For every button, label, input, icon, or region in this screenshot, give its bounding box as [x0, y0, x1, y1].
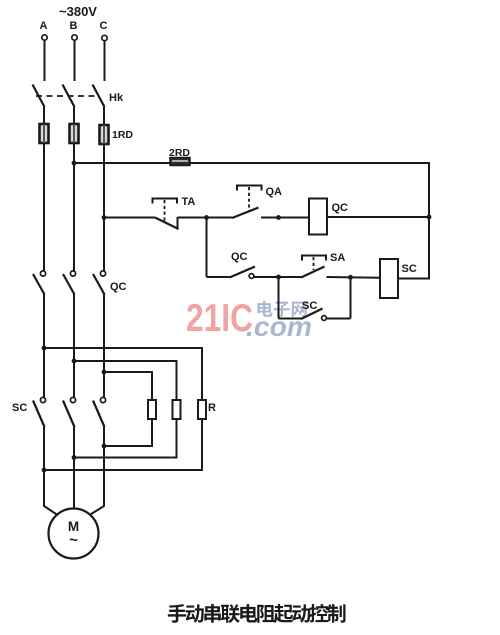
terminal node A — [42, 35, 47, 40]
pushbutton SA — [301, 256, 326, 278]
svg-text:QC: QC — [231, 251, 248, 263]
label 2RD — [169, 147, 190, 159]
terminal node C — [102, 35, 107, 40]
svg-text:21IC: 21IC — [186, 297, 253, 340]
svg-text:~380V: ~380V — [59, 4, 97, 19]
contact SC main phase B — [63, 397, 76, 427]
wire QA to coil QC — [261, 217, 309, 219]
contact SC main phase A — [33, 397, 46, 427]
label SC main — [12, 402, 27, 414]
wire QA node down — [206, 218, 208, 278]
fuse 1RD phase A — [40, 124, 49, 143]
fuse 1RD phase C — [100, 125, 109, 144]
wire X to SA — [279, 276, 302, 278]
junction phase B control tap — [72, 161, 77, 166]
svg-text:SC: SC — [302, 300, 317, 312]
wire A to fuse — [43, 107, 45, 125]
wire phase B lower3 — [73, 427, 75, 458]
node A label — [40, 20, 48, 32]
label TA — [182, 196, 196, 208]
pushbutton TA — [153, 199, 179, 230]
wire SA to coil SC — [327, 276, 381, 279]
wire SC aux up to Y — [350, 277, 352, 319]
wire phase B mid — [73, 143, 75, 271]
label QC coil — [332, 202, 349, 214]
watermark .com — [246, 311, 312, 342]
wire phase C mid — [103, 144, 105, 271]
wire branch B bottom — [74, 419, 177, 458]
svg-text:2RD: 2RD — [169, 147, 190, 159]
wire phase B lower1 — [73, 294, 75, 361]
wire phase B lower2 — [73, 361, 75, 397]
wire branch C top — [104, 372, 152, 400]
wire C to fuse — [103, 107, 105, 126]
wire control top — [76, 162, 430, 164]
label QA — [266, 186, 283, 198]
wire branch C bottom — [104, 419, 152, 446]
wire QC aux left — [207, 276, 230, 278]
junction TA-QA node — [204, 215, 209, 220]
junction branch A return — [42, 468, 47, 473]
contact QC main phase A — [33, 271, 46, 295]
wire SC aux right — [327, 318, 351, 320]
junction branch B return — [72, 455, 77, 460]
fuse 2RD — [170, 158, 190, 166]
wire phase C upper — [104, 41, 106, 81]
coil QC — [309, 199, 327, 235]
svg-text:QC: QC — [332, 202, 349, 214]
label SC coil — [402, 263, 417, 275]
pushbutton QA — [232, 186, 262, 219]
svg-text:QA: QA — [266, 186, 283, 198]
node B label — [70, 20, 78, 32]
label QC main — [110, 281, 127, 293]
svg-text:Hk: Hk — [109, 92, 124, 104]
label QC aux — [231, 251, 248, 263]
switch Hk blade A — [33, 85, 45, 108]
terminal node B — [72, 35, 77, 40]
label SC aux — [302, 300, 317, 312]
contact SC main phase C — [93, 397, 106, 427]
junction branch C return — [102, 444, 107, 449]
wire branch A top — [44, 348, 202, 400]
wire motor lead B — [73, 458, 75, 510]
svg-text:~: ~ — [69, 532, 78, 549]
resistor R phase B — [173, 400, 181, 419]
svg-text:A: A — [40, 20, 48, 32]
junction phase C control tap — [102, 215, 107, 220]
fuse 1RD phase B — [70, 124, 79, 143]
wire phase A upper — [44, 41, 46, 82]
wire motor lead C — [90, 446, 105, 515]
watermark dianziwang — [257, 301, 306, 317]
caption — [168, 604, 346, 623]
wire phase B upper — [74, 41, 76, 82]
motor M — [49, 509, 99, 559]
wire phase A lower3 — [43, 427, 45, 471]
junction QA right node — [276, 215, 281, 220]
wire phase C lower2 — [103, 372, 105, 397]
junction X node — [276, 275, 281, 280]
junction branch A — [42, 346, 47, 351]
node C label — [100, 20, 108, 32]
wire phase A lower2 — [43, 348, 45, 397]
watermark 21IC — [186, 297, 253, 340]
junction branch B — [72, 359, 77, 364]
wire branch A bottom — [44, 419, 202, 470]
wire motor lead A — [44, 470, 58, 515]
wire TA to QA — [178, 217, 233, 219]
svg-text:SA: SA — [330, 252, 345, 264]
contact QC main phase B — [63, 271, 76, 295]
svg-text:QC: QC — [110, 281, 127, 293]
svg-text:TA: TA — [182, 196, 196, 208]
label Hk — [109, 92, 124, 104]
svg-text:C: C — [100, 20, 108, 32]
switch Hk blade C — [93, 85, 105, 108]
wire phase C lower3 — [103, 427, 105, 447]
resistor R phase A — [198, 400, 206, 419]
resistor R phase C — [148, 400, 156, 419]
svg-text:B: B — [70, 20, 78, 32]
svg-text:SC: SC — [12, 402, 27, 414]
label R — [208, 402, 216, 414]
wire SC aux left — [279, 318, 302, 320]
junction Y node — [348, 275, 353, 280]
label 1RD — [112, 129, 133, 141]
svg-text:R: R — [208, 402, 216, 414]
wire phase A mid — [43, 143, 45, 271]
wire QC aux right — [254, 276, 279, 278]
switch Hk blade B — [63, 85, 75, 108]
coil SC — [380, 259, 398, 298]
wire phase C lower1 — [103, 294, 105, 372]
wire X node down — [278, 277, 280, 319]
contact QC main phase C — [93, 271, 106, 295]
contact SC aux — [301, 309, 326, 321]
label SA — [330, 252, 345, 264]
wire coil SC to rail — [398, 278, 430, 280]
contact QC aux — [230, 267, 256, 279]
wire branch B top — [74, 361, 177, 400]
wire B to fuse — [73, 107, 75, 125]
wire right rail — [428, 162, 430, 279]
wire phase A lower1 — [43, 294, 45, 348]
junction rail QC row — [427, 215, 432, 220]
switch Hk linkage — [36, 95, 99, 97]
wire coil QC to rail — [327, 216, 429, 218]
svg-text:SC: SC — [402, 263, 417, 275]
junction branch C — [102, 370, 107, 375]
svg-text:1RD: 1RD — [112, 129, 133, 141]
wire TA row left — [106, 217, 156, 219]
label ~380V — [59, 4, 97, 19]
